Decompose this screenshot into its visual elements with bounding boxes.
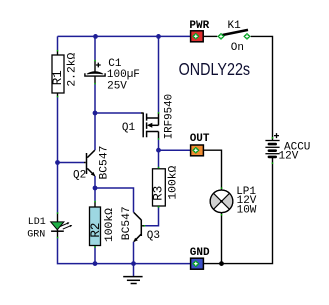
svg-text:BC547: BC547: [121, 206, 133, 240]
svg-text:On: On: [231, 42, 244, 54]
svg-text:ONDLY22s: ONDLY22s: [179, 61, 250, 80]
svg-text:OUT: OUT: [190, 133, 210, 145]
svg-text:Q2: Q2: [73, 170, 86, 182]
svg-text:IRF9540: IRF9540: [164, 94, 176, 139]
svg-text:10W: 10W: [237, 204, 257, 216]
svg-text:K1: K1: [228, 20, 242, 32]
svg-text:PWR: PWR: [189, 20, 209, 32]
svg-text:100kΩ: 100kΩ: [104, 208, 116, 242]
svg-text:25V: 25V: [107, 80, 127, 92]
svg-text:GRN: GRN: [27, 230, 45, 241]
svg-text:2.2kΩ: 2.2kΩ: [67, 52, 79, 86]
svg-text:R3: R3: [151, 186, 165, 201]
svg-text:100µF: 100µF: [107, 69, 140, 81]
svg-text:GND: GND: [190, 247, 210, 259]
svg-text:Q3: Q3: [147, 230, 160, 242]
svg-text:BC547: BC547: [98, 146, 110, 180]
svg-text:R2: R2: [89, 223, 103, 238]
svg-text:Q1: Q1: [122, 122, 136, 134]
svg-text:R1: R1: [51, 70, 65, 85]
svg-text:LD1: LD1: [28, 217, 46, 228]
svg-text:12V: 12V: [279, 151, 299, 163]
svg-text:100kΩ: 100kΩ: [168, 165, 180, 199]
